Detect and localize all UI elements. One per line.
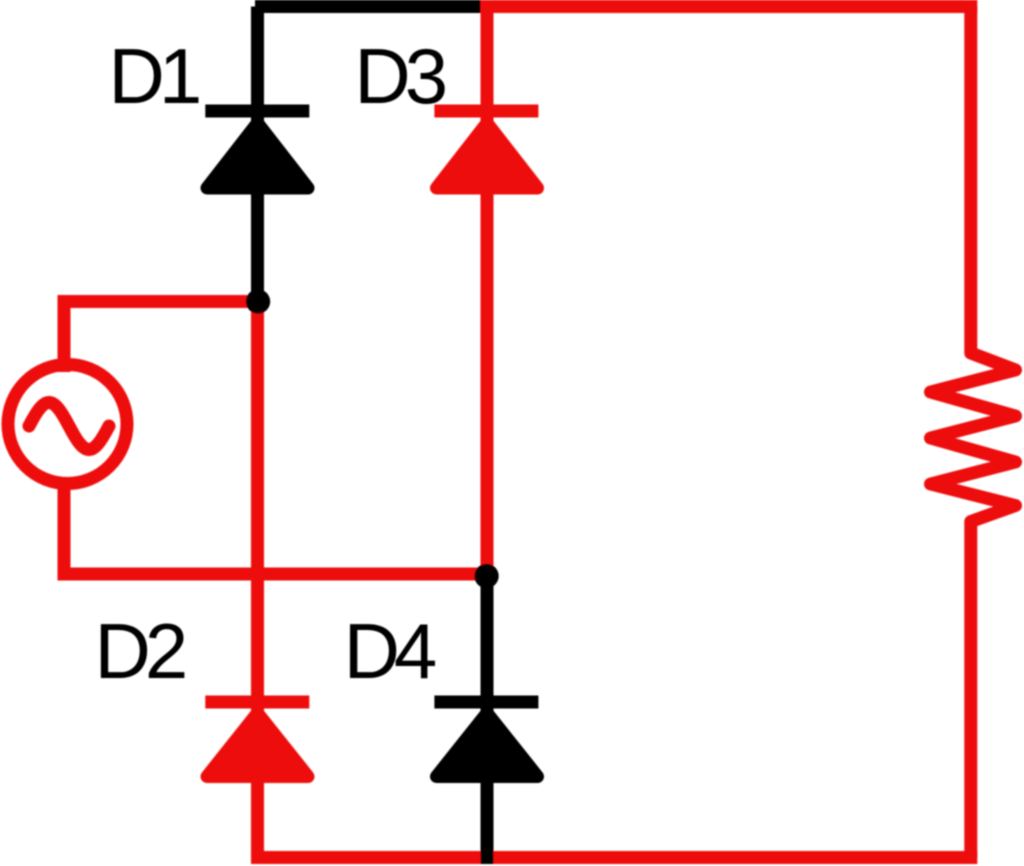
svg-text:D1: D1 [109,32,199,120]
AC source V1 sine symbol [29,403,109,450]
wire: AC source top lead and horizontal to node A [64,302,258,373]
svg-text:D3: D3 [354,32,444,120]
wire: top bus (black segment from D1 branch to D3 branch) [255,0,490,13]
diode D1 cathode bar [205,105,309,118]
wire: bottom bus (red) [251,851,977,864]
wire: right branch with resistor zigzag [931,7,1016,858]
AC source V1 circle [8,365,127,484]
svg-text:D4: D4 [344,607,436,695]
wire: D2 branch lead (red, node A down to bottom bus) [251,301,264,861]
wire: D3 branch lead (red, top bus down to node B) [481,0,494,580]
diode D4 cathode bar (black) [434,696,538,709]
diode D3 cathode bar (red) [434,105,538,118]
node A junction dot [246,289,270,313]
diode D2 cathode bar (red) [205,696,309,709]
wire: D1 top lead [251,7,264,308]
wire: AC source bottom lead and horizontal to node B [64,477,487,574]
wire: top bus (red segment from D3 branch to right corner) [487,0,977,13]
diode D4 triangle (black, pointing up) [437,713,538,777]
svg-text:D2: D2 [95,607,185,695]
diode D3 triangle (red, pointing up) [437,123,538,188]
wire: D4 branch lead (black, node B down over bottom bus) [481,576,494,864]
diode D1 triangle (anode, pointing up) [207,123,308,188]
node B junction dot [474,564,498,588]
diode D2 triangle (red, pointing up) [207,713,308,777]
